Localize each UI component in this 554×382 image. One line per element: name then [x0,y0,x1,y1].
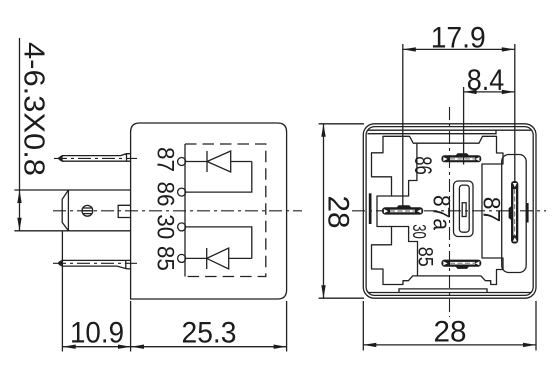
extension line 28-bottom right [535,301,537,351]
svg-text:86: 86 [409,156,436,175]
svg-text:30: 30 [409,224,429,239]
keyway rectangle on middle block [118,205,130,217]
top ledge [368,130,532,134]
relay body outline [131,123,287,299]
arrow 25.3 left [131,345,144,349]
dimension 4-6.3X0.8 leader line [19,38,21,231]
inner island wall upper-left [392,143,417,196]
wire 85 [186,257,252,259]
arrow up at y=190 [17,190,21,203]
arrow 28v top [321,124,325,137]
dashed internal box [185,144,266,277]
blade 87 (right, vertical) [509,181,519,244]
vertical centerline of bottom view [449,107,451,317]
dimension line 8.4 [464,91,515,93]
extension line 28-vert top [319,123,364,125]
svg-text:87: 87 [478,197,505,223]
middle mounting block [14,190,130,231]
arrow 17.9 right [502,47,515,51]
arrow 25.3 right [274,345,287,349]
arrow down at y=230.8 [17,218,21,231]
pin blade bottom (side view) [59,260,131,269]
arrow 10.9 right [118,345,131,349]
svg-text:85: 85 [152,246,179,271]
inner case outline [366,127,533,296]
arrow 8.4 right [502,90,515,94]
svg-text:87: 87 [152,147,179,172]
terminal circle 87 [178,158,186,166]
cavity outline [372,136,504,284]
terminal circle 30 [178,223,186,231]
extension line to blade86 center [463,87,465,165]
svg-text:10.9: 10.9 [70,317,124,350]
svg-text:85: 85 [414,247,437,267]
bottom ledge [368,289,532,293]
arrow 28b right [523,343,536,347]
wire 87 [186,161,252,163]
centerline of bottom pin [53,262,137,264]
svg-text:30: 30 [152,214,179,239]
dimension line 28 vertical [323,124,325,298]
extension line to blade30 center [402,44,404,207]
right latch nub [526,203,529,223]
dimension line 28 bottom [363,344,536,346]
wire 30 [186,227,252,259]
blade 86 (top) [441,153,481,162]
svg-text:17.9: 17.9 [431,22,486,55]
svg-text:25.3: 25.3 [182,317,237,350]
terminal circle 86 [178,188,186,196]
arrow 28b left [363,343,376,347]
center post 87a assembly [454,181,474,237]
dimension line 10.9 / 25.3 [63,346,287,348]
extension line body right bottom [286,301,288,352]
blade 30 (left) [382,205,423,214]
svg-text:28: 28 [322,196,355,229]
right slot pocket [502,155,527,273]
extension line body left bottom [130,301,132,352]
terminal circle 85 [178,254,186,262]
horizontal centerline of bottom view [352,210,546,212]
inner island wall lower-left [392,227,418,276]
pin blade top (side view) [59,154,131,162]
arrow 17.9 left [403,47,416,51]
diode D1 [207,151,231,172]
extension line 28-vert bottom [319,297,364,299]
svg-text:86: 86 [152,182,179,207]
arrow 10.9 left [63,345,76,349]
extension line to blade87 center [514,44,516,181]
extension line 28-bottom left [362,301,364,351]
main horizontal centerline [53,210,302,212]
svg-text:4-6.3X0.8: 4-6.3X0.8 [18,42,50,176]
arrow 28v bottom [321,285,325,298]
left latch nub [369,193,372,224]
outer case outline [363,124,536,298]
svg-text:8.4: 8.4 [467,64,505,97]
extension line for 10.9 left [61,231,63,352]
svg-text:87a: 87a [428,195,455,231]
svg-text:28: 28 [434,316,467,349]
blade 85 (bottom) [441,260,481,269]
arrow 8.4 left [464,90,477,94]
dimension line 17.9 [403,48,515,50]
diode D2 [207,248,229,269]
screw head circle on middle block [82,205,93,216]
wire corner 87-86 [186,162,252,193]
centerline of top pin [54,157,137,159]
